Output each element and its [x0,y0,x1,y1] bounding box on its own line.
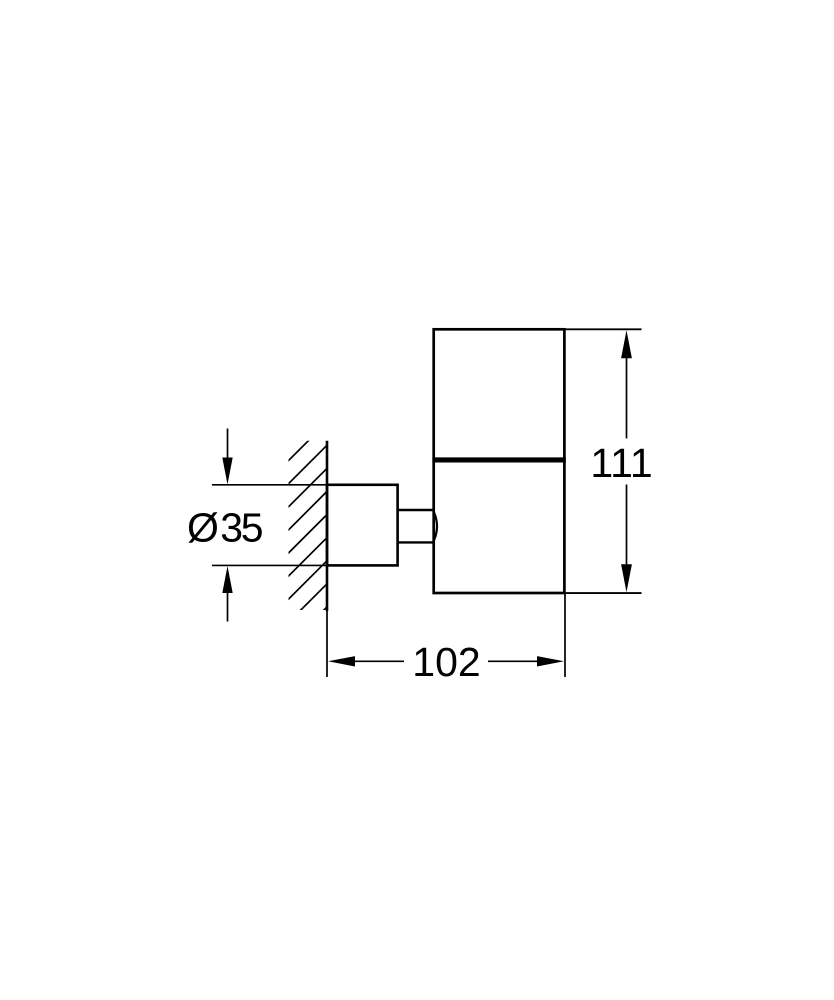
102 left arrowhead [328,656,355,666]
svg-text:35: 35 [220,504,263,550]
wall surface line [326,441,329,611]
svg-text:111: 111 [590,440,652,486]
102 dimension line left segment [353,660,404,662]
extension line top (111) [565,328,642,330]
111 lower arrowhead [621,564,632,592]
svg-text:Ø: Ø [187,504,219,550]
holder cylinder body [434,329,565,593]
extension line right (102, below cylinder) [564,593,566,677]
111 dimension line lower segment [626,485,628,567]
111 upper arrowhead [621,330,632,358]
102 right arrowhead [537,656,564,666]
wall bracket (mounting post) [327,485,398,566]
extension line bottom (111) [565,592,642,594]
stem top line [398,509,434,511]
thick rim line of holder [432,457,565,462]
svg-text:102: 102 [412,639,480,685]
102 dimension line right segment [488,660,539,662]
wall hatching [279,422,327,655]
d35 lower arrow leader [227,591,229,622]
d35 upper arrowhead [222,458,232,485]
stem rounded tip arc [434,512,437,540]
d35 lower arrowhead [222,566,232,593]
extension line bottom (d35) [212,564,327,566]
111 dimension line upper segment [626,356,628,438]
extension line left (102, below wall) [326,611,328,677]
extension line top (d35) [212,484,327,486]
d35 upper arrow leader [227,429,229,461]
stem bottom line [398,541,434,543]
